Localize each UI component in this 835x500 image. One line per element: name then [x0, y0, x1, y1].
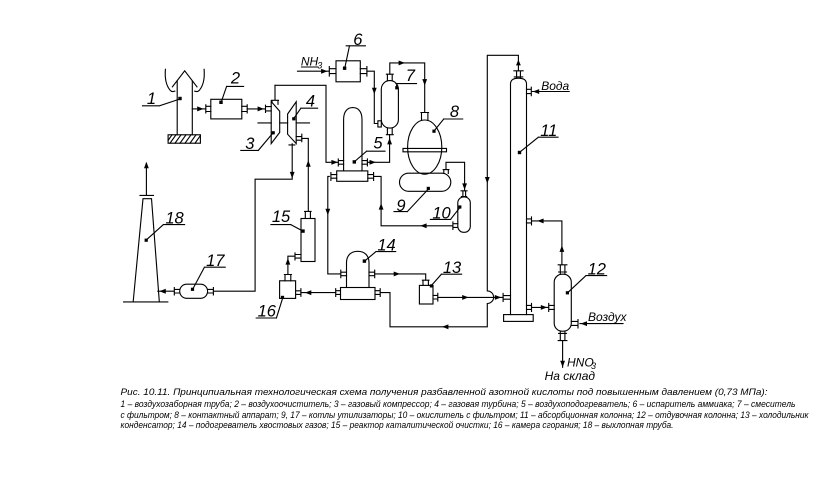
label 2 leader	[219, 70, 243, 104]
label 13 leader	[430, 259, 462, 288]
wire heater 14 to cooler-condenser 13	[375, 272, 426, 281]
wire column 11 to stripping column 12 top	[532, 219, 565, 265]
contact apparatus 8	[403, 113, 447, 175]
svg-text:7: 7	[406, 67, 416, 85]
water feed label	[532, 79, 569, 94]
air feed label	[580, 310, 627, 326]
label 10 leader	[430, 204, 461, 222]
svg-text:NH: NH	[301, 54, 319, 68]
catalytic purification reactor 15	[295, 211, 315, 261]
oxidizer with filter 10	[453, 191, 470, 232]
label 12 leader	[566, 260, 607, 294]
label 5 leader	[353, 134, 385, 163]
label 6 leader	[343, 31, 366, 70]
label 4 leader	[292, 93, 317, 121]
svg-text:5: 5	[373, 134, 383, 152]
svg-text:Воздух: Воздух	[588, 310, 627, 324]
HNO3 product label	[545, 355, 596, 383]
svg-text:На склад: На склад	[545, 369, 596, 383]
wire boiler 9 to oxidizer 10	[446, 162, 467, 190]
wire boiler 17 to exhaust stack 18	[158, 289, 175, 294]
mixer with filter 7	[381, 74, 398, 135]
label 15 leader	[271, 208, 305, 233]
air cleaner 2	[206, 99, 247, 119]
wire condenser 13 to absorption column 11	[438, 295, 503, 300]
wire oxidizer 10 to heater 5 tube side	[374, 176, 453, 228]
wire 2 to 3	[247, 106, 265, 111]
label 16 leader	[256, 296, 284, 321]
air compressor 4	[288, 102, 302, 145]
wire compressor 3 top to heater 5	[275, 85, 338, 165]
svg-text:2: 2	[230, 70, 240, 88]
wire 1 to 2	[192, 106, 206, 111]
label 14 leader	[363, 236, 396, 262]
cooler-condenser 13	[419, 280, 437, 304]
svg-text:с фильтром; 8 – контактный апп: с фильтром; 8 – контактный аппарат; 9, 1…	[121, 410, 810, 420]
label 9 leader	[394, 187, 430, 215]
air heater 5	[331, 108, 374, 182]
turbine shaft	[258, 122, 310, 124]
wire heater 5 outlet down to tail-gas heater 14	[325, 176, 340, 274]
label 18 leader	[145, 209, 185, 241]
svg-text:8: 8	[450, 103, 460, 121]
label 1 leader	[143, 90, 182, 108]
exhaust stack 18	[124, 162, 168, 302]
stripping column 12	[549, 265, 578, 341]
svg-text:конденсатор; 14 – подогревател: конденсатор; 14 – подогреватель хвостовы…	[121, 420, 674, 430]
label 11 leader	[518, 122, 558, 154]
wire column 11 bottom to column 12	[532, 305, 549, 310]
combustion chamber 16	[280, 275, 301, 299]
svg-text:1 – воздухозаборная труба; 2 –: 1 – воздухозаборная труба; 2 – воздухооч…	[121, 399, 796, 409]
svg-text:HNO: HNO	[567, 355, 594, 369]
label 17 leader	[191, 252, 225, 291]
wire reactor 15 to turbine 4	[302, 138, 311, 211]
wire evaporator 6 to mixer 7	[367, 71, 381, 127]
label 7 leader	[395, 67, 416, 89]
tail-gas heater 14	[336, 251, 381, 299]
wire turbine 4 exhaust to boiler 17	[213, 145, 294, 291]
svg-text:15: 15	[272, 208, 291, 226]
product acid outlet wire	[560, 341, 565, 368]
label 8 leader	[432, 103, 462, 133]
waste-heat boiler 9	[400, 170, 451, 192]
wire heater 14 shell to combustion chamber 16	[301, 290, 336, 295]
label 3 leader	[241, 131, 275, 153]
tail gas line column 11 top to heater 14	[380, 55, 521, 329]
wire combustion chamber 16 to reactor 15	[286, 256, 296, 274]
ammonia evaporator 6	[329, 61, 367, 82]
wire heater 5 to mixer 7	[367, 135, 392, 165]
NH3 feed wire to evaporator 6	[298, 69, 330, 74]
NH3 feed label	[301, 54, 322, 70]
air intake stack 1	[165, 69, 204, 135]
absorption column 11	[503, 71, 533, 322]
gas turbine 3	[266, 85, 280, 143]
hatched ground base of stack 1	[168, 135, 200, 143]
waste-heat boiler 17	[174, 284, 213, 298]
wire mixer 7 to contact apparatus 8	[390, 61, 427, 113]
svg-text:Рис. 10.11. Принципиальная тех: Рис. 10.11. Принципиальная технологическ…	[121, 387, 768, 397]
